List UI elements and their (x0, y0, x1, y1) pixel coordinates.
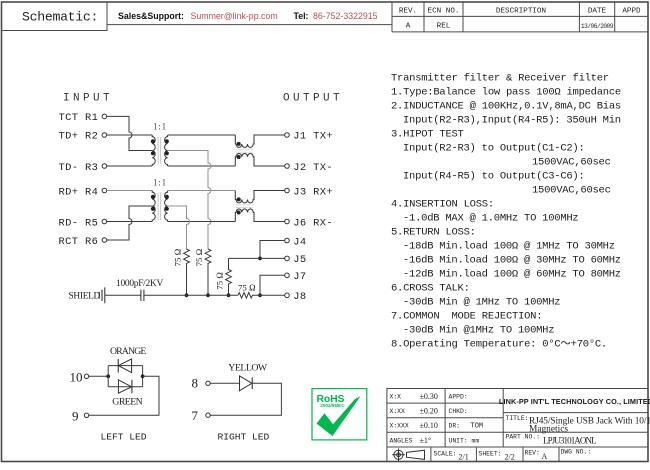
projection symbol circle (392, 449, 424, 462)
transformer T1 primary phase dots (151, 139, 155, 143)
svg-text:DR:: DR: (449, 422, 461, 429)
choke L2 lower phase dot (237, 211, 241, 215)
svg-text:75 Ω: 75 Ω (194, 248, 204, 266)
choke L1 upper winding (235, 135, 254, 147)
svg-text:TITLE:: TITLE: (506, 415, 529, 422)
rev table lines (392, 2, 648, 32)
wire J5 line (229, 257, 285, 259)
transformer T2 primary phase dots (151, 195, 155, 199)
wire J4 down to J5 line (260, 241, 285, 259)
choke L1 lower phase dot (237, 155, 241, 159)
svg-text:Sales&Support:: Sales&Support: (118, 11, 184, 21)
junction R75-1 / shield line (185, 293, 189, 297)
resistor R75-1 (vertical, T2 tap to shield line) (184, 249, 190, 295)
svg-text:YELLOW: YELLOW (228, 362, 268, 373)
wire R2 to T1 primary top (107, 134, 153, 136)
RoHS box (312, 389, 367, 440)
svg-text:1500VAC,60sec: 1500VAC,60sec (532, 185, 611, 197)
pin circle J6 (285, 219, 290, 224)
transformer T2 primary winding (152, 191, 155, 222)
choke L2 upper winding (235, 191, 254, 203)
pin circle R4 (102, 188, 107, 193)
svg-text:J4: J4 (293, 236, 306, 248)
svg-text:SHEET:: SHEET: (479, 451, 502, 458)
svg-text:X:XXX: X:XXX (390, 422, 409, 429)
svg-text:LPJU3101AONL: LPJU3101AONL (543, 436, 596, 446)
svg-text:1500VAC,60sec: 1500VAC,60sec (532, 157, 611, 169)
resistor R75-2 (vertical, T1 tap to shield line) (205, 249, 211, 295)
svg-text:2/2: 2/2 (505, 453, 515, 462)
rev table header row (399, 8, 641, 31)
schematic title box (2, 2, 108, 31)
transformer T2 secondary winding (165, 191, 168, 222)
left rows (387, 403, 648, 447)
svg-text:J7: J7 (293, 271, 306, 283)
wire R6 to T2 center tap (with hop over R5 wire) (107, 206, 153, 240)
svg-text:7: 7 (192, 408, 199, 423)
junction J7/J8 (258, 293, 262, 297)
svg-text:SCALE:: SCALE: (434, 451, 457, 458)
pin circle J2 (285, 164, 290, 169)
svg-text:-30dB Min @1MHz TO 100MHz: -30dB Min @1MHz TO 100MHz (403, 325, 554, 337)
svg-text:GREEN: GREEN (112, 396, 142, 407)
wire choke L2 to J6 (254, 221, 285, 223)
wire T1 secondary center tap to resistor (gray, hops at J2,J3,J6 rows) (168, 151, 211, 250)
svg-text:SHIELD: SHIELD (69, 292, 101, 302)
junction R75-2 / shield line (206, 293, 210, 297)
transformer T2 secondary phase dots (165, 195, 169, 199)
wire pin8 to LED D3 (210, 382, 239, 384)
LED D3 yellow (points right) (240, 376, 252, 391)
svg-text:LINK-PP INT'L TECHNOLOGY CO.,: LINK-PP INT'L TECHNOLOGY CO., LIMITED (499, 397, 650, 406)
choke L2 upper phase dot (237, 197, 241, 201)
wire T2 secondary bottom to choke L2 (168, 221, 236, 223)
svg-text:X:X: X:X (390, 393, 402, 400)
pin circle J5 (285, 256, 290, 261)
svg-text:RCT R6: RCT R6 (59, 236, 99, 248)
svg-text:TD+ R2: TD+ R2 (59, 131, 99, 143)
projection symbol cone (407, 450, 425, 459)
wire R5 to T2 primary bottom (107, 221, 153, 223)
svg-text:UNIT:: UNIT: (449, 437, 468, 444)
wire pin10 to LED pair (89, 375, 109, 377)
bottom row cells (431, 447, 559, 462)
junction left of LED pair (106, 374, 110, 378)
svg-text:mm: mm (472, 437, 480, 444)
wire J7 down to J8 line (260, 275, 285, 295)
wire T1 secondary top to choke L1 (168, 134, 236, 136)
svg-text:75 Ω: 75 Ω (215, 272, 225, 290)
LED D2 cathode bar (131, 380, 133, 393)
svg-text:-18dB Min.load 100Ω @ 1MHz TO: -18dB Min.load 100Ω @ 1MHz TO 30MHz (403, 241, 615, 253)
svg-text:6.CROSS TALK:: 6.CROSS TALK: (391, 283, 470, 295)
svg-text:4.INSERTION LOSS:: 4.INSERTION LOSS: (391, 199, 494, 211)
svg-text:Input(R2-R3) to Output(C1-C2):: Input(R2-R3) to Output(C1-C2): (403, 143, 585, 155)
wire T1 secondary bottom to choke L1 (168, 165, 236, 167)
svg-text:REL: REL (437, 23, 451, 31)
resistor R75-4 (horizontal, on J8 line) (238, 293, 285, 299)
svg-text:75 Ω: 75 Ω (238, 282, 256, 292)
junction right of LED pair (141, 374, 145, 378)
LED D2 green (points right) (118, 380, 131, 393)
pin 9 circle (84, 413, 88, 417)
pin circle R3 (102, 164, 107, 169)
svg-text:J3 RX+: J3 RX+ (293, 186, 333, 198)
svg-text:±0.20: ±0.20 (420, 407, 438, 416)
svg-text:Summer@link-pp.com: Summer@link-pp.com (191, 11, 278, 21)
left columns (445, 389, 503, 448)
svg-text:86-752-3322915: 86-752-3322915 (313, 11, 378, 21)
svg-text:1.Type:Balance low pass 100Ω i: 1.Type:Balance low pass 100Ω impedance (391, 87, 621, 99)
choke L2 core (236, 205, 254, 208)
LED D1 orange (points left) (118, 359, 131, 373)
svg-text:3.HIPOT TEST: 3.HIPOT TEST (391, 129, 464, 141)
shield line left of horizontal resistor (144, 294, 238, 296)
svg-text:J8: J8 (293, 291, 306, 303)
svg-text:-30dB Min @ 1MHz TO 100MHz: -30dB Min @ 1MHz TO 100MHz (403, 297, 560, 309)
svg-text:TD- R3: TD- R3 (59, 162, 99, 174)
transformer T1 primary winding (152, 135, 155, 166)
svg-text:Input(R2-R3),Input(R4-R5): 350: Input(R2-R3),Input(R4-R5): 350uH Min (403, 115, 621, 127)
LED D1 cathode bar (117, 359, 119, 373)
svg-text:-12dB Min.load 100Ω @ 60MHz TO: -12dB Min.load 100Ω @ 60MHz TO 80MHz (403, 269, 621, 281)
junction J4/J5 (258, 257, 262, 261)
wire shield to capacitor (105, 294, 141, 296)
transformer T1 secondary winding (165, 135, 168, 166)
wire T2 secondary center tap to resistor (gray, hop at J6 row) (168, 206, 190, 249)
svg-text:±0.30: ±0.30 (420, 392, 438, 401)
svg-text:ECN NO.: ECN NO. (428, 8, 460, 16)
junction R75-3 / shield line (227, 293, 231, 297)
svg-text:DWG NO.:: DWG NO.: (561, 449, 592, 456)
pin circle J8 (285, 293, 290, 298)
svg-text:J5: J5 (293, 254, 306, 266)
svg-text:Schematic:: Schematic: (22, 10, 98, 25)
svg-text:1:1: 1:1 (153, 178, 167, 188)
svg-text:8: 8 (192, 376, 199, 391)
svg-text:-1.0dB MAX @ 1.0MHz TO 100MHz: -1.0dB MAX @ 1.0MHz TO 100MHz (403, 213, 578, 225)
capacitor C (1000pF/2KV) plates (141, 290, 144, 301)
svg-text:5.RETURN LOSS:: 5.RETURN LOSS: (391, 227, 476, 239)
svg-text:X:XX: X:XX (390, 408, 406, 415)
svg-text:±0.10: ±0.10 (420, 421, 438, 430)
wire R1 to T1 center tap (with hop over R2 wire) (107, 116, 153, 150)
pin circle J3 (285, 188, 290, 193)
svg-text:RD+ R4: RD+ R4 (59, 186, 99, 198)
svg-text:8.Operating Temperature: 0°C～+: 8.Operating Temperature: 0°C～+70°C. (391, 339, 607, 351)
choke L2 lower winding (235, 209, 254, 222)
svg-text:9: 9 (72, 408, 79, 423)
wire R3 to T1 primary bottom (107, 165, 153, 167)
svg-text:J6 RX-: J6 RX- (293, 217, 333, 229)
title block outline (387, 389, 648, 462)
svg-text:RIGHT LED: RIGHT LED (218, 432, 270, 443)
svg-text:A: A (406, 23, 411, 31)
pin circle J7 (285, 273, 290, 278)
wire choke L1 to J1 (254, 134, 285, 136)
svg-text:LEFT LED: LEFT LED (101, 432, 147, 443)
svg-text:75 Ω: 75 Ω (173, 248, 183, 266)
svg-text:13/06/2009: 13/06/2009 (581, 23, 614, 30)
svg-text:1:1: 1:1 (153, 122, 167, 132)
pin circle J1 (285, 133, 290, 138)
svg-text:TOM: TOM (471, 422, 484, 430)
svg-text:J1 TX+: J1 TX+ (293, 131, 333, 143)
choke L1 lower winding (235, 153, 254, 166)
pin circle R1 (102, 114, 107, 119)
svg-text:10: 10 (70, 370, 83, 385)
choke L1 upper phase dot (237, 142, 241, 146)
pin 10 circle (84, 374, 88, 378)
right dividers (503, 412, 648, 414)
svg-text:1000pF/2KV: 1000pF/2KV (116, 279, 163, 289)
wire choke L1 to J2 (254, 165, 285, 167)
svg-text:Tel:: Tel: (294, 11, 309, 21)
svg-text:Magnetics: Magnetics (529, 424, 568, 434)
RoHS checkmark (317, 396, 361, 436)
shield symbol bars (99, 287, 105, 303)
svg-text:2/1: 2/1 (459, 453, 469, 462)
svg-text:ORANGE: ORANGE (110, 346, 146, 357)
resistor R75-3 (vertical, J5 to shield line) (226, 258, 232, 295)
svg-text:2002/95/EC: 2002/95/EC (320, 403, 345, 408)
svg-text:INPUT: INPUT (63, 93, 113, 105)
svg-text:A: A (542, 452, 548, 461)
svg-text:DATE: DATE (588, 8, 607, 16)
input pin circles (102, 114, 289, 298)
svg-text:OUTPUT: OUTPUT (283, 93, 343, 105)
svg-text:±1°: ±1° (420, 436, 432, 445)
wire R4 to T2 primary top (gray) (107, 190, 153, 192)
transformer T1 core (158, 137, 161, 165)
pin 8 circle (206, 381, 210, 385)
header rule (107, 24, 392, 26)
svg-text:CHKD:: CHKD: (449, 408, 468, 415)
pin circle R6 (102, 238, 107, 243)
svg-text:APPD: APPD (622, 8, 641, 16)
wire choke L2 to J3 (254, 190, 285, 192)
svg-text:-16dB Min.load 100Ω @ 30MHz TO: -16dB Min.load 100Ω @ 30MHz TO 60MHz (403, 255, 621, 267)
wire LED pair to pin 9 (89, 376, 159, 415)
svg-text:7.COMMON MODE REJECTION:: 7.COMMON MODE REJECTION: (391, 311, 542, 323)
svg-text:J2 TX-: J2 TX- (293, 162, 333, 174)
LED D3 cathode bar (251, 377, 253, 389)
svg-text:ANGLES: ANGLES (390, 437, 413, 444)
wire LED D3 to pin 7 (210, 383, 281, 415)
svg-text:REV:: REV: (525, 450, 540, 457)
svg-text:2.INDUCTANCE @ 100KHz,0.1V,8mA: 2.INDUCTANCE @ 100KHz,0.1V,8mA,DC Bias (391, 101, 621, 113)
pin circle R5 (102, 219, 107, 224)
svg-text:Transmitter filter & Receiver: Transmitter filter & Receiver filter (391, 73, 609, 85)
svg-text:Input(R4-R5) to Output(C3-C6):: Input(R4-R5) to Output(C3-C6): (403, 171, 585, 183)
svg-text:APPD:: APPD: (449, 393, 468, 400)
pin circle J4 (285, 238, 290, 243)
pin circle R2 (102, 133, 107, 138)
svg-text:DESCRIPTION: DESCRIPTION (496, 8, 546, 16)
wire T2 secondary top to choke L2 (gray) (168, 190, 236, 192)
svg-text:RD- R5: RD- R5 (59, 217, 99, 229)
transformer T1 secondary phase dots (165, 139, 169, 143)
transformer T2 core (158, 193, 161, 221)
svg-text:REV.: REV. (399, 8, 417, 16)
pin 7 circle (206, 413, 210, 417)
choke L1 core (236, 149, 254, 152)
svg-text:TCT R1: TCT R1 (59, 112, 99, 124)
LED pair frame (108, 366, 142, 387)
